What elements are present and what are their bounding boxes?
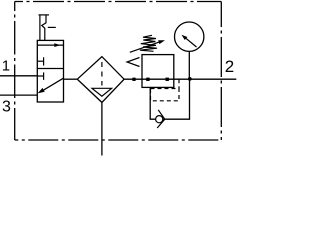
actuator: push-pull knob with detent on valve V1 [39,15,56,41]
regulator R1 seat squares on flow line [146,78,149,81]
valve V1 body (3/2-way shut-off valve) [37,40,63,102]
wire: valve outlet to filter [64,78,78,80]
wire: port 1 supply pipe [0,75,37,77]
svg-text:1: 1 [2,58,10,75]
pressure gauge G1 [175,22,204,51]
regulator R1 body (pressure regulating valve) [142,55,174,88]
junction node: gauge tap [188,77,192,81]
regulator R1 adjustability arrow [130,40,165,52]
valve V1 bottom-box blocked port stub [37,72,43,80]
svg-text:2: 2 [225,57,234,76]
valve V1 top-box blocked port stub [37,57,43,65]
valve V1 top-box flow path arrow [37,43,63,47]
regulator R1 adjustment spring [140,35,157,51]
filter F1 with water separator (diamond) [77,57,124,103]
wire: gauge stem [188,51,190,79]
regulator R1 relief vent triangle [127,58,140,67]
regulator R1 pilot line (dashed) [151,79,180,101]
svg-text:3: 3 [2,99,11,116]
junction node: filter outlet [132,78,135,81]
check valve (relief seat) in branch [156,110,165,128]
enclosure frame (dash-dot service-unit boundary) [15,2,222,141]
wire: port 3 exhaust pipe [0,94,37,96]
wire: filter condensate drain [101,102,103,155]
valve V1 bottom-box exhaust path arrow (2 to 3) [38,78,64,93]
wire: relief branch loop [150,79,189,119]
wire: main line filter to port 2 outlet [124,78,236,80]
